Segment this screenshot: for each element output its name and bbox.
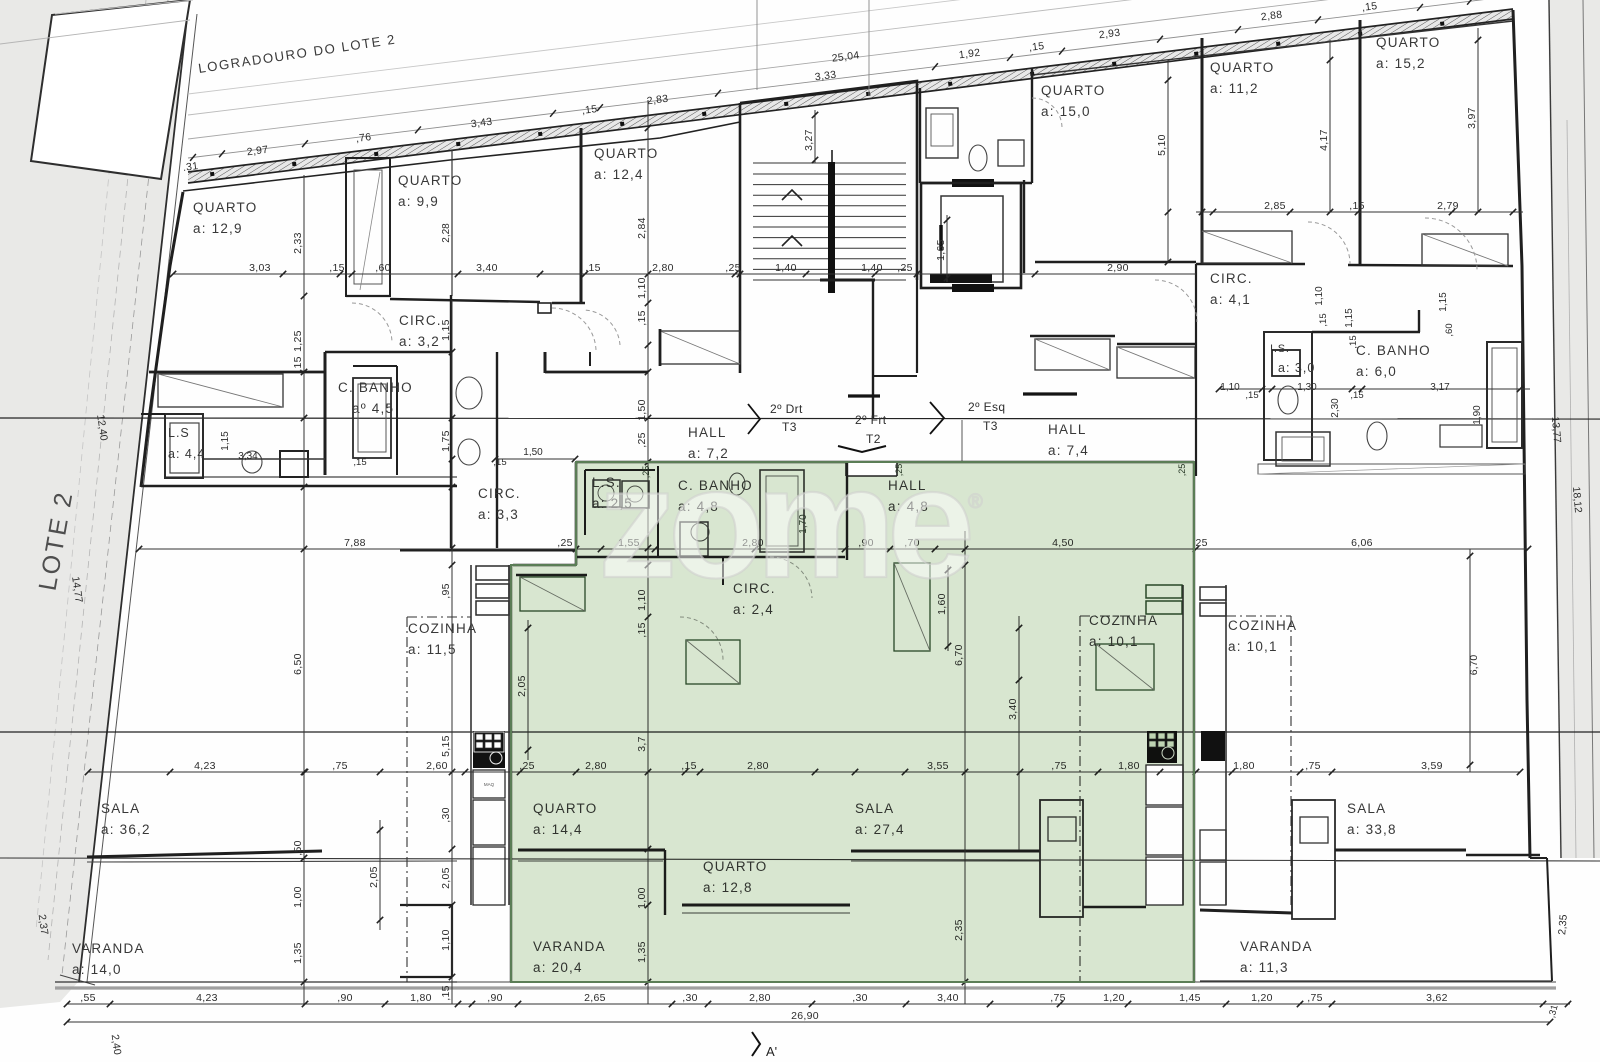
svg-text:1,45: 1,45 [1179, 992, 1201, 1004]
svg-text:3,03: 3,03 [249, 262, 271, 274]
svg-text:VARANDA: VARANDA [1240, 939, 1313, 954]
T3 apartment walls [576, 461, 1194, 464]
svg-text:,15: ,15 [1350, 390, 1363, 401]
svg-text:2,80: 2,80 [652, 262, 674, 274]
svg-text:C. BANHO: C. BANHO [338, 380, 413, 395]
svg-text:CIRC.: CIRC. [1210, 271, 1253, 286]
svg-text:1,50: 1,50 [636, 399, 648, 421]
svg-text:a: 36,2: a: 36,2 [101, 822, 151, 837]
svg-text:2,30: 2,30 [1330, 398, 1341, 418]
svg-text:2,80: 2,80 [749, 992, 771, 1004]
svg-text:1,40: 1,40 [861, 262, 883, 274]
svg-text:,15: ,15 [585, 262, 601, 274]
svg-text:4,23: 4,23 [196, 992, 218, 1004]
svg-text:,50: ,50 [292, 840, 304, 856]
svg-text:2,60: 2,60 [426, 760, 448, 772]
svg-text:,60: ,60 [375, 262, 391, 274]
svg-text:,30: ,30 [852, 992, 868, 1004]
svg-text:A': A' [766, 1044, 777, 1059]
svg-text:1,15: 1,15 [440, 319, 452, 341]
svg-text:a: 11,3: a: 11,3 [1240, 960, 1289, 975]
svg-text:,15: ,15 [440, 985, 452, 1001]
svg-text:,15: ,15 [1028, 40, 1045, 54]
svg-text:VARANDA: VARANDA [72, 941, 145, 956]
svg-text:2,05: 2,05 [440, 867, 452, 889]
svg-text:I.S.: I.S. [1270, 343, 1290, 355]
svg-text:,30: ,30 [440, 807, 452, 823]
svg-text:1,90: 1,90 [1472, 405, 1483, 425]
svg-text:1,35: 1,35 [292, 942, 304, 964]
svg-text:CIRC.: CIRC. [399, 313, 442, 328]
svg-text:QUARTO: QUARTO [398, 173, 462, 188]
svg-text:2,65: 2,65 [584, 992, 606, 1004]
svg-text:,95: ,95 [440, 583, 452, 599]
svg-text:3,62: 3,62 [1426, 992, 1448, 1004]
svg-text:,75: ,75 [1307, 992, 1323, 1004]
svg-text:,55: ,55 [80, 992, 96, 1004]
svg-text:COZINHA: COZINHA [1228, 618, 1297, 633]
svg-text:QUARTO: QUARTO [594, 146, 658, 161]
svg-text:L.S: L.S [168, 426, 190, 440]
svg-text:a: 7,4: a: 7,4 [1048, 443, 1089, 458]
svg-text:1,15: 1,15 [1438, 292, 1449, 312]
svg-text:C. BANHO: C. BANHO [1356, 343, 1431, 358]
svg-text:3,59: 3,59 [1421, 760, 1443, 772]
svg-text:1,75: 1,75 [440, 430, 452, 452]
svg-text:1,80: 1,80 [1233, 760, 1255, 772]
svg-text:MAQ: MAQ [484, 782, 495, 787]
svg-text:a: 10,1: a: 10,1 [1228, 639, 1278, 654]
svg-text:a: 4,4: a: 4,4 [168, 447, 205, 461]
svg-text:QUARTO: QUARTO [1041, 83, 1105, 98]
elevator shaft [921, 183, 1021, 288]
svg-text:T3: T3 [782, 420, 797, 434]
svg-text:SALA: SALA [101, 801, 140, 816]
svg-text:,15: ,15 [636, 310, 648, 326]
svg-text:,15: ,15 [1245, 390, 1258, 401]
svg-text:a: 12,4: a: 12,4 [594, 167, 644, 182]
svg-text:1,10: 1,10 [636, 277, 648, 299]
svg-text:,25: ,25 [725, 262, 741, 274]
svg-text:,76: ,76 [355, 131, 372, 145]
svg-text:3,40: 3,40 [476, 262, 498, 274]
svg-text:zome: zome [598, 435, 970, 611]
site: left lot boundary band [0, 0, 188, 1008]
svg-text:1,00: 1,00 [292, 886, 304, 908]
svg-text:,60: ,60 [1444, 323, 1455, 336]
svg-text:a: 11,5: a: 11,5 [408, 642, 457, 657]
svg-text:,15: ,15 [329, 262, 345, 274]
svg-text:a: 3,2: a: 3,2 [399, 334, 440, 349]
svg-text:,15: ,15 [353, 457, 366, 468]
svg-text:1,25: 1,25 [292, 330, 304, 352]
svg-text:QUARTO: QUARTO [1376, 35, 1440, 50]
svg-text:2,28: 2,28 [441, 223, 452, 243]
svg-text:,25: ,25 [897, 262, 913, 274]
svg-text:QUARTO: QUARTO [193, 200, 257, 215]
svg-text:1,15: 1,15 [1344, 308, 1355, 328]
svg-text:COZINHA: COZINHA [408, 621, 477, 636]
svg-text:2,85: 2,85 [1264, 200, 1286, 212]
highlighted T3 apartment overlay [511, 462, 1194, 982]
svg-text:2,84: 2,84 [636, 217, 648, 239]
svg-text:2º Esq: 2º Esq [968, 400, 1005, 414]
svg-text:a: 33,8: a: 33,8 [1347, 822, 1397, 837]
svg-text:®: ® [968, 491, 983, 513]
svg-text:6,50: 6,50 [292, 653, 304, 675]
svg-text:18,12: 18,12 [1570, 486, 1584, 513]
svg-text:QUARTO: QUARTO [1210, 60, 1274, 75]
svg-text:1,20: 1,20 [1251, 992, 1273, 1004]
svg-text:,75: ,75 [1305, 760, 1321, 772]
svg-text:1,30: 1,30 [1297, 382, 1317, 393]
svg-text:3,27: 3,27 [803, 129, 815, 151]
svg-text:2,79: 2,79 [1437, 200, 1459, 212]
svg-text:2,90: 2,90 [1107, 262, 1129, 274]
svg-text:CIRC.: CIRC. [478, 486, 521, 501]
svg-text:3,17: 3,17 [1430, 382, 1450, 393]
reference section lines [0, 418, 1600, 419]
svg-text:aº 4,5: aº 4,5 [352, 401, 394, 416]
svg-text:13,77: 13,77 [1549, 416, 1563, 443]
svg-text:,15: ,15 [493, 457, 506, 468]
svg-text:,15: ,15 [1318, 313, 1329, 326]
svg-text:1,20: 1,20 [1103, 992, 1125, 1004]
svg-text:1,50: 1,50 [523, 447, 543, 458]
svg-text:a: 3,3: a: 3,3 [478, 507, 519, 522]
svg-text:,75: ,75 [1050, 992, 1066, 1004]
stairwell [740, 81, 917, 280]
svg-text:a: 15,2: a: 15,2 [1376, 56, 1426, 71]
svg-text:a: 15,0: a: 15,0 [1041, 104, 1091, 119]
interior walls [141, 192, 183, 487]
svg-text:,15: ,15 [1361, 0, 1378, 14]
svg-text:,15: ,15 [581, 103, 598, 117]
svg-text:a: 9,9: a: 9,9 [398, 194, 439, 209]
svg-text:1,80: 1,80 [410, 992, 432, 1004]
svg-text:2,35: 2,35 [1556, 914, 1570, 936]
svg-text:3,40: 3,40 [937, 992, 959, 1004]
svg-text:,75: ,75 [332, 760, 348, 772]
svg-text:4,17: 4,17 [1318, 129, 1330, 151]
svg-text:,90: ,90 [487, 992, 503, 1004]
svg-text:,15: ,15 [1349, 200, 1365, 212]
svg-text:a: 12,9: a: 12,9 [193, 221, 243, 236]
svg-text:1,65: 1,65 [935, 239, 947, 261]
svg-text:5,15: 5,15 [440, 735, 452, 757]
svg-text:7,88: 7,88 [344, 537, 366, 549]
svg-text:6,06: 6,06 [1351, 537, 1373, 549]
svg-text:1,15: 1,15 [220, 431, 231, 451]
svg-text:1,10: 1,10 [1220, 382, 1240, 393]
svg-text:,25: ,25 [557, 537, 573, 549]
svg-text:,30: ,30 [682, 992, 698, 1004]
svg-text:1,10: 1,10 [1314, 286, 1325, 306]
svg-text:,90: ,90 [337, 992, 353, 1004]
svg-text:,15: ,15 [292, 356, 304, 372]
svg-text:26,90: 26,90 [791, 1010, 819, 1022]
svg-text:1,10: 1,10 [440, 929, 452, 951]
exterior north wall (hatched) [188, 9, 1513, 183]
svg-text:a: 14,0: a: 14,0 [72, 962, 122, 977]
svg-text:a: 4,1: a: 4,1 [1210, 292, 1251, 307]
svg-text:3,97: 3,97 [1466, 107, 1478, 129]
svg-text:3,34: 3,34 [238, 451, 258, 462]
svg-text:SALA: SALA [1347, 801, 1386, 816]
svg-text:a: 3,0: a: 3,0 [1278, 361, 1315, 375]
svg-text:4,23: 4,23 [194, 760, 216, 772]
svg-text:2,05: 2,05 [368, 866, 380, 888]
svg-text:.31: .31 [182, 160, 199, 174]
svg-text:a: 11,2: a: 11,2 [1210, 81, 1259, 96]
svg-text:2,33: 2,33 [292, 232, 304, 254]
svg-text:HALL: HALL [1048, 422, 1087, 437]
svg-text:2º Frt: 2º Frt [855, 413, 887, 427]
svg-text:T3: T3 [983, 419, 998, 433]
svg-text:1,40: 1,40 [775, 262, 797, 274]
svg-text:2º Drt: 2º Drt [770, 402, 803, 416]
svg-text:a: 6,0: a: 6,0 [1356, 364, 1397, 379]
svg-text:5,10: 5,10 [1156, 134, 1168, 156]
street: LOGRADOURO faint boundary lines [188, 0, 1555, 158]
